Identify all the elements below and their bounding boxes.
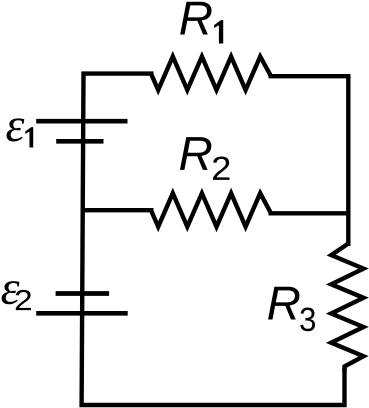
label emf epsilon-1 — [7, 118, 25, 141]
battery E1 short plate (-) — [56, 139, 103, 144]
wire: middle branch left segment — [82, 208, 153, 212]
label epsilon-2 subscript 2 — [16, 290, 31, 310]
wire: top-right segment + upper right vertical — [269, 76, 349, 246]
label R1 subscript 1 — [214, 20, 223, 43]
wire: left vertical + top-left corner + bottom wire + bottom-right riser — [82, 74, 345, 405]
resistor R3 — [331, 244, 363, 372]
resistor R1 — [151, 57, 271, 91]
battery E1 long plate (+) — [36, 119, 127, 124]
label R3 subscript 3 — [300, 308, 315, 332]
label R1 'R' — [180, 2, 211, 35]
resistor R2 — [151, 193, 271, 227]
label R2 subscript 2 — [213, 156, 230, 179]
battery E2 short plate (-) — [56, 291, 110, 296]
battery E2 long plate (+) — [36, 311, 128, 316]
label R3 'R' — [268, 287, 299, 320]
label R2 'R' — [180, 137, 211, 170]
wire: middle branch right segment — [269, 211, 349, 215]
label emf epsilon-2 — [2, 281, 20, 304]
label epsilon-1 subscript 1 — [25, 127, 33, 147]
